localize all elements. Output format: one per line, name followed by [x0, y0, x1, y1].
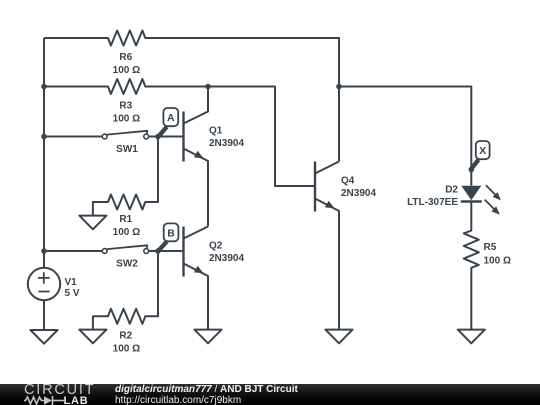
- svg-text:R5: R5: [484, 242, 497, 253]
- svg-text:5 V: 5 V: [65, 288, 80, 299]
- svg-text:LAB: LAB: [64, 395, 89, 405]
- svg-text:X: X: [479, 145, 486, 157]
- svg-text:R3: R3: [119, 101, 132, 112]
- svg-text:R6: R6: [119, 52, 132, 63]
- svg-text:SW2: SW2: [116, 258, 138, 269]
- svg-text:100 Ω: 100 Ω: [113, 227, 140, 238]
- svg-text:2N3904: 2N3904: [209, 253, 244, 264]
- svg-text:A: A: [167, 112, 175, 124]
- svg-text:R2: R2: [119, 331, 132, 342]
- svg-text:R1: R1: [119, 214, 132, 225]
- svg-text:100 Ω: 100 Ω: [113, 344, 140, 355]
- svg-text:V1: V1: [65, 277, 78, 288]
- svg-text:B: B: [167, 227, 175, 239]
- svg-text:2N3904: 2N3904: [341, 188, 376, 199]
- svg-text:LTL-307EE: LTL-307EE: [407, 197, 458, 208]
- svg-text:Q4: Q4: [341, 175, 355, 186]
- svg-text:Q1: Q1: [209, 125, 223, 136]
- svg-text:D2: D2: [445, 184, 458, 195]
- svg-text:SW1: SW1: [116, 144, 138, 155]
- svg-text:100 Ω: 100 Ω: [484, 256, 511, 267]
- svg-text:2N3904: 2N3904: [209, 138, 244, 149]
- svg-text:100 Ω: 100 Ω: [113, 114, 140, 125]
- svg-text:100 Ω: 100 Ω: [113, 65, 140, 76]
- svg-text:Q2: Q2: [209, 240, 223, 251]
